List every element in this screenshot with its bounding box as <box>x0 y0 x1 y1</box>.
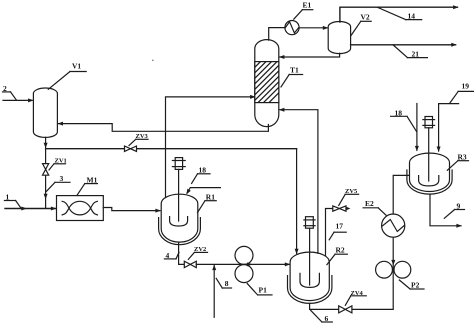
label ZV4 <box>345 290 366 306</box>
heat exchanger E2 <box>382 214 405 237</box>
reactor R3 jacket <box>407 170 452 194</box>
svg-text:E2: E2 <box>365 199 374 208</box>
pump P1 <box>235 246 253 282</box>
motor R2 <box>304 217 315 285</box>
label R1 <box>198 193 217 213</box>
reactor R2 vessel <box>290 252 329 300</box>
wire R2 vapor to T1 right side <box>279 108 318 254</box>
svg-text:8: 8 <box>225 279 229 288</box>
label V2 <box>351 13 371 36</box>
wire ZV3 header from V1 outlet to R2 top <box>46 149 299 255</box>
label V1 <box>48 62 86 90</box>
svg-text:R2: R2 <box>336 246 345 255</box>
label ZV3 <box>129 133 149 146</box>
svg-text:V2: V2 <box>361 13 370 22</box>
label 18 at R1 <box>192 165 210 183</box>
wire V2 bottoms reflux to T1 <box>279 53 340 59</box>
wire E1 to V2 <box>299 26 328 30</box>
motor R3 <box>423 117 435 182</box>
label ZV2 <box>188 246 207 259</box>
valve ZV5 <box>333 206 346 211</box>
label 9 <box>444 202 464 219</box>
label E1 <box>294 1 313 20</box>
wire stream 2 into V1 <box>3 98 34 102</box>
wire ZV2 to R2 through P1 <box>196 262 290 266</box>
column T1 packing hatch <box>220 62 311 103</box>
vessel V1 <box>33 88 57 137</box>
impeller R3 <box>419 176 439 186</box>
reactor R3 vessel <box>410 153 450 191</box>
valve ZV2 <box>184 261 196 267</box>
vessel V2 <box>328 22 350 54</box>
motor R1 <box>172 158 185 221</box>
reactor R1 vessel <box>161 194 198 242</box>
wire ZV5 outlet stub <box>346 207 350 210</box>
reactor R2 jacket <box>288 276 332 304</box>
label R2 <box>327 246 347 265</box>
valve ZV4 <box>339 306 352 313</box>
label 17 <box>329 222 346 240</box>
wire stream 17 into R2 with ZV5 branch <box>326 209 333 256</box>
wire stream 19 into R3 <box>437 104 459 152</box>
wire T1 overhead to E1 <box>269 28 285 41</box>
label ZV5 <box>339 188 359 205</box>
svg-text:P2: P2 <box>411 281 420 290</box>
wire R3 outlet stream 9 <box>430 194 462 227</box>
label M1 <box>77 175 98 195</box>
wire stream 18 into R1 <box>186 188 220 195</box>
svg-text:17: 17 <box>336 222 344 231</box>
label R3 <box>447 152 468 170</box>
svg-text:P1: P1 <box>259 286 268 295</box>
valve ZV1 <box>43 164 49 176</box>
node speck <box>152 60 154 62</box>
wire stream 18 into R3 <box>415 104 419 152</box>
label 3 <box>46 174 70 191</box>
label E2 <box>363 199 386 215</box>
wire M1 to R1 <box>103 208 161 213</box>
svg-text:19: 19 <box>462 82 470 91</box>
label 14 <box>378 7 422 20</box>
wire stream 8 riser <box>212 265 216 318</box>
label 2 <box>3 84 17 100</box>
label 8 <box>216 278 231 288</box>
label ZV1 <box>49 157 67 170</box>
svg-text:18: 18 <box>199 165 207 174</box>
pump P2 <box>376 260 411 278</box>
svg-text:V1: V1 <box>72 62 81 71</box>
wire V2 overhead stream 14 <box>340 5 459 22</box>
wire R1 bottom outlet to ZV2 <box>179 242 185 264</box>
svg-text:M1: M1 <box>87 175 98 184</box>
mixer M1 <box>57 196 104 221</box>
label 19 <box>450 82 474 104</box>
wire stream 1 into M1 <box>5 207 56 211</box>
label T1 <box>281 66 303 87</box>
label 1 <box>4 193 21 209</box>
wire stream 21 from V2 <box>351 43 457 47</box>
impeller R2 <box>300 273 319 287</box>
label 18 at R3 <box>391 108 417 131</box>
label P1 <box>247 284 272 295</box>
wire R2 bottom outlet to ZV4 to P2 riser <box>310 237 394 309</box>
wire V1 bottom outlet down to line 1 <box>44 137 48 208</box>
wire E2 to R3 inlet <box>393 175 409 214</box>
label 6 <box>311 310 333 323</box>
valve ZV3 <box>125 146 137 151</box>
impeller R1 <box>170 217 188 226</box>
reactor R1 jacket <box>159 218 201 245</box>
heat exchanger E1 <box>285 21 299 35</box>
svg-text:3: 3 <box>60 174 64 183</box>
wire R1 vapor to T1 <box>166 95 256 197</box>
column T1 vessel <box>255 40 279 127</box>
label 21 <box>393 45 427 59</box>
svg-text:R3: R3 <box>458 152 467 161</box>
svg-text:E1: E1 <box>303 1 312 10</box>
svg-text:T1: T1 <box>290 66 299 75</box>
label P2 <box>399 280 424 290</box>
wire T1 bottoms to V1 <box>58 122 269 132</box>
label 4 <box>164 251 179 260</box>
